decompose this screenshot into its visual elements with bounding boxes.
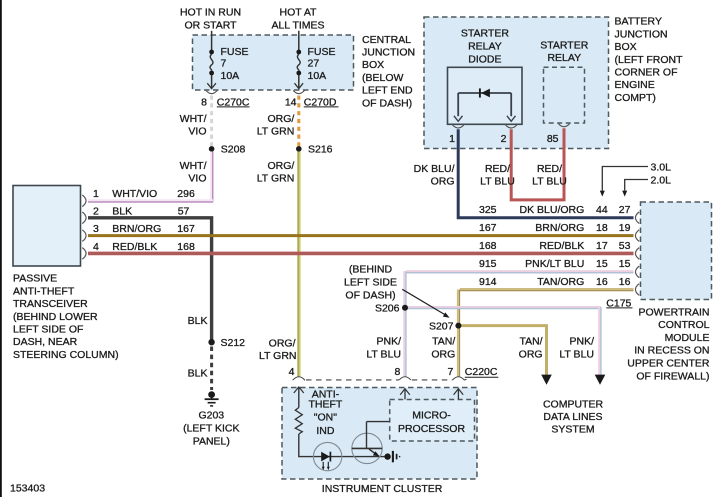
svg-text:RED/: RED/	[485, 163, 510, 175]
label powertrain control module	[627, 306, 710, 382]
svg-text:VIO: VIO	[188, 173, 206, 185]
microprocessor output arrow to pin 7	[454, 389, 464, 400]
svg-text:17: 17	[596, 240, 608, 252]
svg-text:SYSTEM: SYSTEM	[551, 424, 594, 436]
svg-text:53: 53	[619, 240, 631, 252]
svg-text:PROCESSOR: PROCESSOR	[398, 423, 466, 435]
svg-text:LT GRN: LT GRN	[259, 350, 297, 362]
svg-text:PASSIVE: PASSIVE	[13, 273, 57, 285]
svg-text:15: 15	[619, 258, 631, 270]
wire WHT/VIO dashed (fuse 7 to S208)	[210, 96, 213, 149]
svg-text:OF DASH): OF DASH)	[345, 290, 395, 302]
svg-text:(LEFT FRONT: (LEFT FRONT	[615, 54, 684, 66]
transceiver pin 3 arc	[82, 230, 86, 242]
wire 167 BRN/ORG (transceiver pin 3 to PCM)	[88, 234, 634, 237]
label central junction box	[362, 34, 415, 110]
svg-text:G203: G203	[198, 410, 224, 422]
wire 915 PNK/LT BLU (PCM pin 15 to S206 to cluster pin 8)	[404, 271, 633, 377]
svg-text:325: 325	[479, 204, 497, 216]
LED circle	[313, 442, 341, 470]
battery junction box	[424, 17, 609, 149]
PCM pin 16/16 arc	[635, 284, 639, 296]
connector C270D arc	[293, 90, 304, 93]
svg-text:BLK: BLK	[188, 315, 208, 327]
transceiver pin 1 arc	[82, 195, 86, 207]
svg-text:STARTER: STARTER	[540, 40, 588, 52]
wire ORG/LT GRN dashed (fuse 27 to S216)	[297, 96, 300, 149]
svg-text:DASH, NEAR: DASH, NEAR	[13, 336, 78, 348]
svg-text:ORG/: ORG/	[267, 113, 294, 125]
svg-text:ALL TIMES: ALL TIMES	[271, 19, 324, 31]
svg-text:RELAY: RELAY	[468, 41, 502, 53]
resistor (anti-theft IND)	[295, 408, 302, 435]
wire PNK/LT BLU branch (S206 to computer data lines)	[405, 307, 605, 385]
svg-text:1: 1	[93, 188, 99, 200]
svg-text:16: 16	[596, 276, 608, 288]
svg-text:BLK: BLK	[112, 205, 132, 217]
fuse 27 10A symbol	[295, 50, 304, 89]
3.0L bracket arrow	[600, 167, 648, 197]
PCM pin 44/27 arc	[635, 212, 639, 224]
svg-text:ORG/: ORG/	[267, 160, 294, 172]
svg-text:WHT/: WHT/	[180, 113, 207, 125]
svg-text:4: 4	[289, 366, 295, 378]
svg-text:2: 2	[501, 133, 507, 145]
wire BLK dashed (S212 to G203)	[210, 347, 213, 391]
diode box pin 2 arc	[506, 125, 517, 128]
svg-text:168: 168	[479, 240, 497, 252]
svg-text:ANTI-THEFT: ANTI-THEFT	[13, 285, 75, 297]
wire 168 RED/BLK (transceiver pin 4 to PCM)	[88, 252, 634, 256]
wire TAN/ORG branch (S207 to computer data lines)	[458, 326, 551, 385]
connector C270C arc	[206, 90, 217, 93]
svg-text:ORG: ORG	[431, 176, 455, 188]
svg-text:16: 16	[619, 276, 631, 288]
connector C220C line with pin bumps	[293, 377, 467, 380]
svg-text:1: 1	[449, 133, 455, 145]
svg-text:3: 3	[93, 223, 99, 235]
wire 57 BLK (transceiver pin 2 to S212)	[88, 218, 212, 342]
ground G203	[205, 391, 219, 406]
svg-text:2: 2	[93, 205, 99, 217]
svg-text:INSTRUMENT CLUSTER: INSTRUMENT CLUSTER	[322, 483, 443, 495]
svg-text:WHT/VIO: WHT/VIO	[112, 188, 157, 200]
wire RED/LT BLU (diode pin 2 to relay pin 85)	[511, 128, 564, 200]
wire ORG/LT GRN vertical (S216 to cluster pin 4)	[297, 152, 300, 377]
relay pin 85 arc	[558, 124, 569, 127]
svg-text:VIO: VIO	[188, 126, 206, 138]
transistor emitter node dot	[384, 453, 390, 459]
microprocessor output arrow to pin 8	[400, 389, 410, 400]
svg-text:MODULE: MODULE	[665, 332, 710, 344]
svg-text:OR START: OR START	[184, 19, 237, 31]
svg-text:JUNCTION: JUNCTION	[615, 28, 668, 40]
svg-text:PANEL): PANEL)	[193, 436, 230, 448]
svg-text:4: 4	[93, 241, 99, 253]
svg-text:LT BLU: LT BLU	[532, 176, 567, 188]
splice S208	[209, 146, 215, 152]
svg-text:CENTRAL: CENTRAL	[362, 34, 411, 46]
svg-text:LT GRN: LT GRN	[257, 173, 295, 185]
annotation arrow to S207	[402, 289, 449, 318]
svg-text:167: 167	[479, 222, 497, 234]
svg-text:PNK/: PNK/	[376, 336, 401, 348]
svg-text:167: 167	[177, 223, 195, 235]
passive anti-theft transceiver box	[13, 186, 81, 267]
svg-text:TRANSCEIVER: TRANSCEIVER	[13, 298, 88, 310]
svg-text:S216: S216	[308, 144, 333, 156]
svg-text:UPPER CENTER: UPPER CENTER	[627, 358, 710, 370]
svg-text:BOX: BOX	[362, 59, 384, 71]
label passive anti-theft transceiver	[13, 273, 119, 361]
svg-text:PNK/: PNK/	[569, 336, 594, 348]
svg-text:168: 168	[177, 241, 195, 253]
svg-text:BLK: BLK	[188, 367, 208, 379]
svg-text:ORG: ORG	[431, 349, 455, 361]
label ANTI-THEFT "ON" IND	[308, 388, 342, 437]
svg-text:14: 14	[285, 96, 297, 108]
starter relay diode internal circuit	[454, 93, 516, 121]
svg-text:S206: S206	[375, 302, 400, 314]
fuse 7 feed wire	[211, 31, 213, 52]
label battery junction box	[615, 16, 684, 104]
svg-text:"ON": "ON"	[314, 412, 337, 424]
svg-text:44: 44	[596, 204, 608, 216]
cluster pin 4 arrow	[294, 387, 304, 408]
svg-text:LT BLU: LT BLU	[559, 349, 594, 361]
svg-text:RED/BLK: RED/BLK	[112, 241, 157, 253]
label COMPUTER DATA LINES SYSTEM	[543, 399, 604, 436]
svg-text:LT BLU: LT BLU	[366, 349, 401, 361]
PCM pin 15/15 arc	[635, 266, 639, 278]
wire 325 DK BLU/ORG (diode pin 1 to PCM)	[458, 129, 633, 217]
wire 914 TAN/ORG (PCM pin 16 to S207 to cluster pin 7)	[458, 290, 633, 377]
svg-text:S207: S207	[429, 320, 454, 332]
svg-text:LT BLU: LT BLU	[480, 176, 515, 188]
svg-text:C220C: C220C	[465, 366, 498, 378]
svg-text:DK BLU/: DK BLU/	[414, 163, 455, 175]
svg-text:57: 57	[178, 205, 190, 217]
svg-text:ENGINE: ENGINE	[615, 79, 655, 91]
svg-text:S212: S212	[221, 337, 246, 349]
svg-text:HOT IN RUN: HOT IN RUN	[180, 7, 241, 19]
svg-text:8: 8	[394, 366, 400, 378]
svg-text:2.0L: 2.0L	[651, 174, 672, 186]
svg-text:CONTROL: CONTROL	[658, 319, 709, 331]
svg-text:COMPUTER: COMPUTER	[543, 399, 604, 411]
splice S212	[208, 339, 214, 345]
wire resistor to LED to transistor node	[299, 434, 388, 457]
svg-text:15: 15	[596, 258, 608, 270]
svg-text:OF FIREWALL): OF FIREWALL)	[636, 370, 709, 382]
splice S206	[402, 305, 408, 311]
svg-text:27: 27	[308, 58, 320, 70]
svg-text:DIODE: DIODE	[468, 53, 501, 65]
fuse 27 feed wire	[298, 31, 300, 52]
svg-text:LT GRN: LT GRN	[257, 126, 295, 138]
svg-text:HOT AT: HOT AT	[280, 7, 318, 19]
starter relay box	[544, 67, 585, 123]
svg-text:BOX: BOX	[615, 41, 637, 53]
svg-text:IND: IND	[316, 425, 335, 437]
central junction box (fuse box)	[193, 35, 354, 90]
svg-text:IN RECESS ON: IN RECESS ON	[634, 345, 709, 357]
svg-text:7: 7	[447, 366, 453, 378]
svg-text:LEFT END: LEFT END	[362, 85, 413, 97]
svg-text:TAN/: TAN/	[519, 336, 542, 348]
svg-text:915: 915	[479, 258, 497, 270]
svg-text:LEFT SIDE: LEFT SIDE	[344, 277, 397, 289]
svg-text:THEFT: THEFT	[308, 399, 342, 411]
LED diode symbol	[321, 452, 330, 471]
svg-text:TAN/: TAN/	[432, 336, 455, 348]
svg-text:85: 85	[547, 133, 559, 145]
svg-text:OF DASH): OF DASH)	[362, 97, 412, 109]
svg-text:MICRO-: MICRO-	[412, 409, 451, 421]
svg-text:10A: 10A	[221, 70, 240, 82]
svg-text:(BEHIND LOWER: (BEHIND LOWER	[13, 311, 98, 323]
instrument cluster box	[282, 388, 477, 480]
2.0L bracket arrow	[622, 180, 648, 197]
splice S216	[296, 146, 302, 152]
svg-text:DATA LINES: DATA LINES	[543, 411, 602, 423]
diode symbol	[480, 88, 490, 97]
svg-text:7: 7	[221, 58, 227, 70]
svg-text:RELAY: RELAY	[547, 52, 581, 64]
svg-text:JUNCTION: JUNCTION	[362, 47, 415, 59]
wire WHT/VIO vertical (S208 to pin 1 corner)	[210, 152, 213, 203]
svg-text:CORNER OF: CORNER OF	[615, 67, 678, 79]
svg-text:POWERTRAIN: POWERTRAIN	[639, 306, 710, 318]
svg-text:COMPT): COMPT)	[615, 92, 656, 104]
svg-text:PNK/LT BLU: PNK/LT BLU	[525, 258, 584, 270]
splice S207	[455, 323, 461, 329]
wire 296 WHT/VIO horizontal (transceiver pin 1)	[88, 199, 213, 202]
PCM pin 18/19 arc	[635, 230, 639, 242]
microprocessor box	[390, 400, 475, 442]
svg-text:153403: 153403	[10, 483, 45, 495]
svg-text:DK BLU/ORG: DK BLU/ORG	[520, 204, 585, 216]
svg-text:FUSE: FUSE	[308, 46, 336, 58]
transceiver pin 4 arc	[82, 248, 86, 260]
transceiver pin 2 arc	[82, 212, 86, 224]
svg-text:LEFT SIDE OF: LEFT SIDE OF	[13, 324, 83, 336]
svg-text:BATTERY: BATTERY	[615, 16, 662, 28]
svg-text:RED/BLK: RED/BLK	[539, 240, 584, 252]
svg-text:ORG: ORG	[519, 349, 543, 361]
powertrain control module box	[641, 202, 712, 300]
ground (emitter)	[393, 451, 400, 462]
transistor Q1	[352, 422, 390, 464]
svg-text:BRN/ORG: BRN/ORG	[535, 222, 584, 234]
svg-text:(LEFT KICK: (LEFT KICK	[183, 423, 239, 435]
diode box pin 1 arc	[453, 125, 464, 128]
svg-text:(BELOW: (BELOW	[362, 72, 404, 84]
svg-text:296: 296	[177, 188, 195, 200]
svg-text:19: 19	[619, 222, 631, 234]
fuse 7 10A symbol	[207, 50, 216, 89]
svg-text:BRN/ORG: BRN/ORG	[112, 223, 161, 235]
svg-text:10A: 10A	[308, 70, 327, 82]
svg-text:STARTER: STARTER	[461, 28, 509, 40]
svg-text:TAN/ORG: TAN/ORG	[537, 276, 584, 288]
svg-text:FUSE: FUSE	[221, 46, 249, 58]
svg-text:ORG/: ORG/	[269, 337, 296, 349]
svg-text:8: 8	[201, 96, 207, 108]
svg-text:WHT/: WHT/	[180, 160, 207, 172]
svg-text:RED/: RED/	[537, 163, 562, 175]
svg-text:27: 27	[619, 204, 631, 216]
svg-text:STEERING COLUMN): STEERING COLUMN)	[13, 349, 119, 361]
svg-text:3.0L: 3.0L	[651, 161, 672, 173]
starter relay diode box	[448, 67, 523, 124]
PCM pin 17/53 arc	[635, 248, 639, 260]
svg-text:(BEHIND: (BEHIND	[349, 264, 393, 276]
svg-text:914: 914	[479, 276, 497, 288]
svg-text:18: 18	[596, 222, 608, 234]
svg-text:S208: S208	[221, 144, 246, 156]
